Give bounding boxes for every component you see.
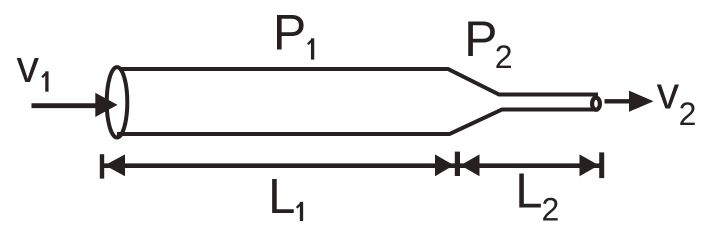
dimension tick right (end of L2) bbox=[599, 152, 604, 178]
wire: wide pipe top outline with taper to narrow pipe bbox=[119, 69, 598, 95]
svg-text:v: v bbox=[657, 68, 680, 119]
pipe inlet ellipse (wide end face) bbox=[107, 67, 128, 137]
label v1: subscript 1 bbox=[42, 71, 47, 91]
wire: wide pipe bottom outline with taper to narrow pipe bbox=[117, 110, 598, 135]
arrow v2 head bbox=[629, 91, 654, 112]
arrow v1 shaft (inflow) bbox=[32, 103, 101, 108]
svg-text:P: P bbox=[273, 4, 306, 60]
svg-text:v: v bbox=[17, 41, 40, 92]
label L1: subscript 1 bbox=[297, 202, 302, 221]
dimension arrowhead L1 right bbox=[435, 154, 454, 176]
dimension line L1 bbox=[104, 163, 455, 168]
dimension tick middle (L1/L2 boundary) bbox=[455, 152, 460, 176]
svg-text:L: L bbox=[268, 170, 295, 224]
label P1: subscript 1 bbox=[308, 38, 313, 59]
dimension arrowhead L1 left bbox=[105, 154, 125, 176]
dimension tick left (start of L1) bbox=[100, 154, 104, 178]
arrow v2 shaft (outflow) bbox=[605, 99, 634, 103]
svg-text:L: L bbox=[515, 165, 542, 219]
svg-text:2: 2 bbox=[542, 191, 560, 227]
arrow v1 head bbox=[95, 93, 117, 117]
dimension line L2 bbox=[460, 163, 600, 168]
dimension arrowhead L2 right bbox=[580, 154, 599, 176]
pipe outlet ellipse (narrow end face) bbox=[592, 98, 600, 110]
svg-text:P: P bbox=[464, 11, 497, 67]
dimension arrowhead L2 left bbox=[461, 154, 480, 176]
svg-text:2: 2 bbox=[679, 96, 697, 132]
svg-text:2: 2 bbox=[495, 39, 513, 75]
